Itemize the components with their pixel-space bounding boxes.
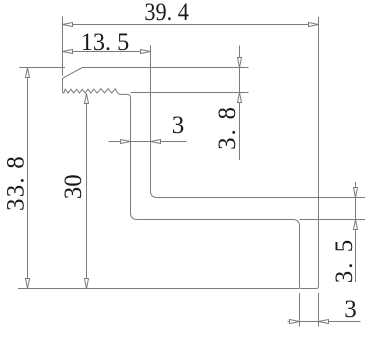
- arrowhead 33.8 top: [26, 68, 30, 78]
- svg-text:3: 3: [172, 112, 185, 139]
- dimension line 33.8: [27, 68, 29, 289]
- left extension line for bottom 3: [299, 293, 301, 327]
- arrowhead 13.5 left: [63, 50, 73, 54]
- bottom extension line: [18, 288, 300, 290]
- arrowhead bottom 3 right: [319, 320, 329, 324]
- dimension line 3.5: [355, 182, 357, 282]
- arrowhead 3 left: [121, 140, 131, 144]
- left extension line for 39.4 and 13.5: [62, 17, 64, 77]
- arrowhead 30 top: [85, 94, 89, 104]
- right extension line for 39.4: [318, 17, 320, 198]
- dimension line 3 (leg thickness): [109, 141, 187, 143]
- arrowhead 39.4 right: [309, 23, 319, 27]
- dimension line 39.4: [63, 24, 319, 26]
- arrowhead 13.5 right: [141, 50, 151, 54]
- top flange underside line: [131, 92, 249, 94]
- arrowhead 3.8 top: [238, 58, 242, 68]
- svg-text:30: 30: [60, 174, 87, 199]
- dimension line bottom 3 (wall thickness): [288, 321, 361, 323]
- svg-text:33. 8: 33. 8: [3, 155, 30, 211]
- top extension line for 33.8: [19, 67, 65, 69]
- leg right edge and web top line with extension: [151, 45, 366, 197]
- web underside extension line: [300, 219, 366, 221]
- svg-text:13. 5: 13. 5: [81, 28, 129, 55]
- arrowhead 30 bottom: [85, 279, 89, 289]
- dimension line 30: [86, 94, 88, 289]
- dimension line 13.5: [63, 51, 151, 53]
- arrowhead 3.5 bottom: [354, 220, 358, 230]
- svg-text:3: 3: [344, 296, 357, 323]
- right extension line for bottom 3: [318, 293, 320, 327]
- arrowhead 33.8 bottom: [26, 279, 30, 289]
- arrowhead bottom 3 left: [290, 320, 300, 324]
- svg-text:3. 5: 3. 5: [331, 238, 358, 284]
- svg-text:3. 8: 3. 8: [214, 105, 241, 150]
- arrowhead 3.8 bottom: [238, 93, 242, 103]
- arrowhead 3 right: [151, 140, 161, 144]
- dimension line 3.8: [239, 46, 241, 161]
- arrowhead 39.4 left: [63, 23, 73, 27]
- profile outline: top flange with chamfer, serrated underside, down leg, web underside, right wall, bottom: [63, 68, 319, 289]
- svg-text:39. 4: 39. 4: [144, 0, 189, 26]
- arrowhead 3.5 top: [354, 188, 358, 198]
